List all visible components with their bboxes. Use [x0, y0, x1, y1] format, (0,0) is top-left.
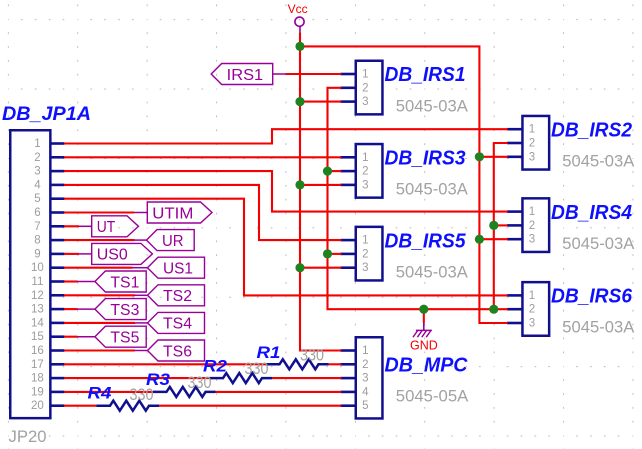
wire GND from DB_IRS1 pin2 down: [328, 88, 508, 309]
svg-text:1: 1: [529, 290, 535, 302]
svg-text:3: 3: [362, 96, 368, 108]
svg-text:UT: UT: [97, 219, 116, 236]
junction GND at DB_IRS3 pin2: [323, 167, 332, 176]
svg-text:10: 10: [31, 262, 44, 274]
svg-text:TS2: TS2: [163, 288, 192, 305]
wire JP pin20 to R4: [64, 405, 98, 407]
junction Vcc at DB_IRS5 pin3: [295, 263, 304, 272]
svg-text:DB_IRS4: DB_IRS4: [551, 202, 632, 224]
wire JP pin8 to UR flag: [64, 239, 135, 241]
svg-text:11: 11: [31, 276, 43, 288]
svg-text:330: 330: [300, 347, 324, 365]
net label UTIM: [147, 202, 212, 223]
wire Vcc vertical main: [300, 33, 341, 351]
wire JP pin3 to DB_IRS4 pin1: [64, 171, 508, 212]
wire JP pin12 to TS2 flag: [64, 294, 135, 296]
net label UR: [147, 230, 195, 251]
junction GND at DB_IRS4 pin2: [489, 221, 498, 230]
svg-text:2: 2: [362, 248, 368, 260]
svg-text:5: 5: [34, 193, 40, 205]
svg-text:330: 330: [245, 360, 269, 378]
wire Vcc to DB_IRS1 pin3: [300, 101, 341, 103]
connector U-DB_IRS2: [522, 116, 549, 170]
net label TS2: [148, 285, 205, 306]
wire JP pin6 to UTIM flag: [64, 211, 134, 213]
svg-text:DB_MPC: DB_MPC: [385, 355, 469, 377]
wire JP pin16 to TS6 flag: [64, 349, 135, 351]
wire JP pin1 to DB_IRS2 pin1: [64, 129, 508, 143]
connector U-DB_IRS4: [522, 198, 549, 252]
wire JP pin2 to DB_IRS3 pin1: [64, 156, 341, 158]
junction GND at DB_IRS5 pin2: [323, 249, 332, 258]
svg-text:7: 7: [34, 221, 40, 233]
wire JP pin15 to TS5 flag: [64, 336, 78, 338]
wire R4 to DB_MPC pin5: [159, 405, 342, 407]
svg-text:1: 1: [362, 235, 368, 247]
svg-text:5045-03A: 5045-03A: [562, 234, 635, 253]
svg-text:5045-03A: 5045-03A: [396, 180, 469, 199]
wire GND right branch up: [494, 143, 508, 309]
wire R3 to DB_MPC pin4: [215, 391, 341, 393]
svg-text:US0: US0: [97, 247, 128, 264]
net label IRS1: [211, 64, 273, 85]
svg-text:TS4: TS4: [163, 316, 192, 333]
svg-text:TS3: TS3: [110, 302, 139, 319]
svg-text:1: 1: [362, 345, 368, 357]
svg-text:330: 330: [130, 386, 154, 404]
svg-text:DB_IRS6: DB_IRS6: [551, 286, 633, 308]
svg-text:15: 15: [31, 331, 44, 343]
wire GND symbol stem: [423, 309, 425, 323]
svg-text:2: 2: [34, 152, 40, 164]
svg-text:UR: UR: [162, 233, 184, 250]
svg-text:2: 2: [529, 138, 535, 150]
svg-text:Vcc: Vcc: [288, 2, 308, 16]
wire R1 to DB_MPC pin2: [328, 363, 341, 365]
wire JP pin11 to TS1 flag: [64, 280, 78, 282]
svg-text:US1: US1: [163, 260, 193, 277]
wire IRS1 flag to DB_IRS1 pin1: [286, 73, 342, 75]
svg-text:1: 1: [529, 206, 535, 218]
junction Vcc at DB_IRS4 pin3: [475, 235, 484, 244]
svg-text:14: 14: [31, 317, 44, 329]
resistor R4: [97, 401, 160, 411]
JP20 pins 1-20 stubs: [51, 142, 65, 145]
resistor R2: [210, 373, 273, 383]
svg-text:TS6: TS6: [163, 343, 192, 360]
svg-text:3: 3: [529, 234, 535, 246]
connector JP20 DB_JP1A box: [10, 130, 50, 418]
svg-text:2: 2: [362, 82, 368, 94]
junction Vcc at DB_IRS2 pin3: [475, 152, 484, 161]
svg-text:16: 16: [31, 345, 44, 357]
svg-text:1: 1: [362, 69, 368, 81]
wire Vcc branch top to right: [300, 46, 508, 323]
svg-text:3: 3: [529, 151, 535, 163]
net label US1: [148, 257, 205, 278]
wire GND to DB_IRS3 pin2: [328, 170, 342, 172]
connector U-DB_MPC: [356, 337, 383, 418]
resistor R1: [266, 359, 329, 369]
junction Vcc top: [295, 42, 304, 51]
svg-text:DB_IRS2: DB_IRS2: [551, 119, 632, 141]
resistor R3: [153, 387, 216, 397]
wire JP pin17 to R1: [64, 363, 267, 365]
svg-text:3: 3: [362, 179, 368, 191]
svg-text:19: 19: [31, 386, 44, 398]
svg-text:13: 13: [31, 304, 44, 316]
svg-text:1: 1: [34, 138, 40, 150]
connector U-DB_IRS1: [356, 61, 383, 115]
wire JP pin10 to US1 flag: [64, 267, 133, 269]
svg-text:3: 3: [529, 318, 535, 330]
svg-text:3: 3: [362, 262, 368, 274]
svg-text:2: 2: [529, 304, 535, 316]
svg-text:4: 4: [34, 179, 41, 191]
wire GND to DB_IRS5 pin2: [328, 253, 342, 255]
net label US0: [92, 243, 153, 264]
svg-text:17: 17: [31, 359, 44, 371]
wire Vcc to DB_IRS4 pin3: [479, 238, 507, 240]
connector U-DB_IRS6: [522, 282, 549, 336]
net label TS6: [148, 340, 205, 361]
wire Vcc to DB_IRS3 pin3: [300, 184, 341, 186]
wire JP pin4 to DB_IRS5 pin1: [64, 185, 341, 240]
svg-text:18: 18: [31, 373, 44, 385]
svg-text:8: 8: [34, 235, 40, 247]
junction Vcc at DB_IRS3 pin3: [295, 180, 304, 189]
wire Vcc to DB_IRS2 pin3: [479, 156, 507, 158]
net label TS3: [95, 299, 146, 320]
svg-text:3: 3: [34, 166, 40, 178]
svg-text:5: 5: [362, 400, 368, 412]
svg-text:3: 3: [362, 373, 368, 385]
wire R2 to DB_MPC pin3: [272, 377, 342, 379]
svg-text:5045-03A: 5045-03A: [562, 318, 635, 337]
svg-text:20: 20: [31, 400, 44, 412]
svg-text:6: 6: [34, 207, 40, 219]
junction GND bottom right: [489, 305, 498, 314]
wire JP pin19 to R3: [64, 391, 154, 393]
svg-text:1: 1: [529, 124, 535, 136]
svg-text:5045-03A: 5045-03A: [396, 262, 469, 281]
svg-text:2: 2: [362, 166, 368, 178]
connector U-DB_IRS5: [356, 227, 383, 281]
svg-text:5045-03A: 5045-03A: [396, 96, 469, 115]
svg-text:2: 2: [529, 220, 535, 232]
ground GND symbol: [423, 322, 425, 330]
wire JP pin13 to TS3 flag: [64, 308, 78, 310]
svg-text:9: 9: [34, 248, 40, 260]
svg-text:TS1: TS1: [110, 274, 139, 291]
svg-text:JP20: JP20: [9, 427, 47, 446]
svg-text:DB_IRS3: DB_IRS3: [385, 148, 466, 170]
svg-text:5045-05A: 5045-05A: [396, 387, 469, 406]
supply Vcc symbol: [295, 17, 304, 26]
svg-text:R4: R4: [88, 384, 113, 403]
svg-text:1: 1: [362, 152, 368, 164]
net label TS5: [95, 326, 146, 347]
net label TS1: [95, 271, 146, 292]
svg-text:330: 330: [188, 374, 212, 392]
wire JP pin18 to R2: [64, 377, 211, 379]
svg-text:TS5: TS5: [110, 329, 139, 346]
wire JP pin14 to TS4 flag: [64, 322, 135, 324]
svg-text:IRS1: IRS1: [227, 67, 264, 84]
svg-text:4: 4: [362, 386, 369, 398]
svg-text:12: 12: [31, 290, 44, 302]
net label UT: [92, 216, 139, 237]
wire JP pin9 to US0 flag: [64, 253, 79, 255]
junction Vcc at DB_IRS1 pin3: [295, 97, 304, 106]
svg-text:UTIM: UTIM: [152, 205, 193, 222]
svg-text:DB_IRS5: DB_IRS5: [385, 230, 467, 252]
junction GND symbol tap: [419, 305, 428, 314]
svg-text:GND: GND: [410, 339, 438, 353]
net label TS4: [148, 312, 205, 333]
wire JP pin7 to UT flag: [64, 225, 79, 227]
wire Vcc to DB_IRS5 pin3: [300, 267, 341, 269]
wire JP pin5 to DB_IRS6 pin1: [64, 199, 508, 296]
svg-text:DB_IRS1: DB_IRS1: [385, 64, 466, 86]
svg-text:5045-03A: 5045-03A: [562, 152, 635, 171]
wire GND to DB_IRS4 pin2: [494, 224, 508, 226]
svg-text:2: 2: [362, 359, 368, 371]
svg-text:R2: R2: [203, 357, 228, 376]
connector U-DB_IRS3: [356, 144, 383, 198]
svg-text:DB_JP1A: DB_JP1A: [2, 104, 91, 125]
